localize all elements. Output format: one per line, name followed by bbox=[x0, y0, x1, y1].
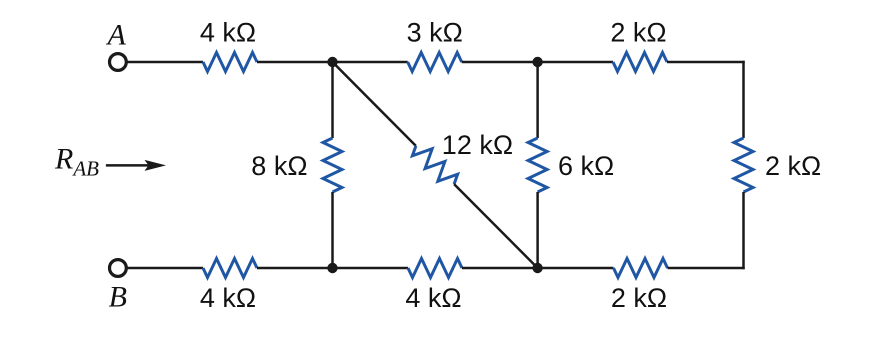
node 3 junction dot bbox=[327, 263, 337, 273]
svg-text:2 kΩ: 2 kΩ bbox=[611, 283, 667, 313]
resistor 4k top-left bbox=[203, 53, 257, 72]
svg-text:8 kΩ: 8 kΩ bbox=[251, 151, 307, 181]
resistor 12k diagonal bbox=[409, 139, 461, 191]
svg-text:4 kΩ: 4 kΩ bbox=[200, 18, 256, 48]
svg-text:3 kΩ: 3 kΩ bbox=[407, 18, 463, 48]
wire right edge upper bbox=[742, 61, 745, 138]
svg-text:2 kΩ: 2 kΩ bbox=[610, 18, 666, 48]
wire bottom: R 2k to bottom-right corner bbox=[668, 267, 745, 270]
node 2 junction dot bbox=[532, 57, 542, 67]
resistor 2k top-right bbox=[613, 53, 667, 72]
wire right edge lower bbox=[742, 192, 745, 269]
resistor 4k bottom-left bbox=[203, 259, 257, 278]
wire bottom: node 3 to R 4k middle bbox=[333, 267, 409, 270]
wire top: R 4k to node 1 bbox=[257, 61, 333, 64]
wire top: terminal A to R 4k bbox=[126, 61, 203, 64]
wire middle vertical upper (node 2 down) bbox=[536, 62, 539, 138]
terminal A circle bbox=[110, 54, 127, 71]
resistor 4k bottom-middle bbox=[408, 259, 462, 278]
node 1 junction dot bbox=[327, 57, 337, 67]
resistor 6k vertical bbox=[528, 138, 547, 192]
resistor 2k right edge bbox=[734, 138, 753, 192]
resistor 3k top-middle bbox=[408, 53, 462, 72]
wire left vertical lower (to node 3) bbox=[331, 192, 334, 268]
wire top: node 2 to R 2k bbox=[538, 61, 613, 64]
node 4 junction dot bbox=[532, 263, 542, 273]
terminal B circle bbox=[110, 260, 127, 277]
wire top: R 3k to node 2 bbox=[462, 61, 538, 64]
wire top: node 1 to R 3k bbox=[333, 61, 408, 64]
resistor 8k vertical bbox=[323, 138, 342, 192]
wire bottom: terminal B to R 4k bbox=[126, 267, 203, 270]
svg-text:4 kΩ: 4 kΩ bbox=[200, 283, 256, 313]
wire diagonal upper (node 1 to R 12k) bbox=[333, 62, 416, 146]
wire middle vertical lower (to node 4) bbox=[536, 192, 539, 268]
svg-text:B: B bbox=[109, 281, 127, 314]
wire top: R 2k to top-right corner bbox=[667, 61, 745, 64]
svg-text:A: A bbox=[106, 18, 127, 51]
svg-text:12 kΩ: 12 kΩ bbox=[442, 130, 513, 160]
wire bottom: node 4 to R 2k bottom bbox=[538, 267, 614, 270]
wire bottom: R 4k middle to node 4 bbox=[462, 267, 538, 270]
resistor 2k bottom-right bbox=[614, 259, 668, 278]
wire bottom: R 4k to node 3 bbox=[257, 267, 333, 270]
svg-text:4 kΩ: 4 kΩ bbox=[405, 283, 461, 313]
svg-text:2 kΩ: 2 kΩ bbox=[765, 151, 821, 181]
wire left vertical upper (node 1 down) bbox=[331, 62, 334, 138]
svg-text:6 kΩ: 6 kΩ bbox=[558, 151, 614, 181]
arrow R_AB bbox=[106, 160, 166, 171]
wire diagonal lower (R 12k to node 4) bbox=[454, 184, 537, 268]
